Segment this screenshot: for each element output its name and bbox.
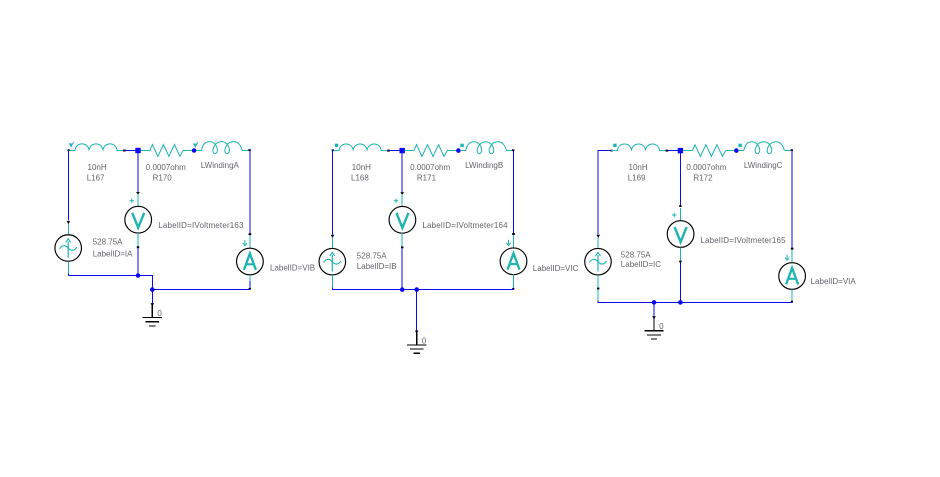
svg-text:528.75A: 528.75A — [357, 252, 387, 261]
inductor L168 — [332, 144, 390, 152]
wire left branch upper — [597, 150, 599, 234]
wire bottom rail B — [332, 289, 514, 291]
label voltmeter — [700, 236, 786, 245]
label R170 values — [146, 163, 186, 182]
wire source to bottom rail — [67, 261, 69, 275]
svg-text:LWindingA: LWindingA — [201, 161, 240, 170]
wire node to resistor — [683, 150, 692, 152]
wire ammeter to bottom rail — [512, 275, 514, 290]
svg-text:10nH: 10nH — [352, 163, 371, 172]
ammeter M1 — [237, 248, 264, 275]
wire winding to top-right corner — [784, 149, 793, 151]
voltmeter U1 — [125, 206, 152, 233]
voltmeter U2 — [389, 206, 416, 233]
wire voltmeter teal lead bottom — [679, 247, 681, 262]
label ammeter — [270, 264, 315, 273]
resistor R171 — [414, 145, 447, 157]
wire ammeter branch upper — [512, 150, 515, 235]
label L167 values — [87, 163, 107, 182]
svg-text:0: 0 — [422, 336, 427, 345]
wire ammeter teal lead top — [513, 235, 515, 248]
wire inductor to node C1 — [667, 150, 680, 152]
svg-text:L168: L168 — [351, 173, 369, 182]
label R171 values — [410, 163, 450, 182]
arrow marker ammeter — [506, 240, 510, 246]
label ammeter — [533, 264, 579, 273]
wire left branch teal lead — [67, 224, 69, 234]
wire voltmeter branch lower — [679, 262, 681, 302]
wire voltmeter teal lead top — [679, 208, 681, 221]
junction voltmeter-rail — [678, 300, 683, 305]
label LWindingC — [744, 161, 783, 170]
svg-text:L167: L167 — [87, 173, 105, 182]
svg-text:528.75A: 528.75A — [93, 237, 123, 246]
junction node B2 — [456, 148, 461, 153]
current source IA 528.75A — [55, 235, 82, 262]
wire voltmeter teal lead top — [137, 194, 139, 207]
arrow voltmeter top — [400, 192, 404, 195]
arrow voltmeter top — [136, 192, 140, 195]
junction ground-rail — [150, 287, 155, 292]
ground 0 node C — [644, 322, 664, 339]
wire ammeter to bottom rail — [791, 289, 793, 302]
junction ground-rail — [414, 287, 419, 292]
wire bottom rail C — [598, 301, 793, 303]
wire ammeter branch upper — [249, 150, 252, 235]
svg-text:10nH: 10nH — [88, 163, 107, 172]
svg-text:LabelID=IVoltmeter163: LabelID=IVoltmeter163 — [158, 221, 244, 230]
svg-text:0.0007ohm: 0.0007ohm — [146, 163, 186, 172]
ammeter M3 — [779, 263, 806, 290]
svg-text:R170: R170 — [153, 173, 173, 182]
inductor L169 — [611, 144, 668, 152]
svg-text:LabelID=IVoltmeter165: LabelID=IVoltmeter165 — [700, 236, 786, 245]
voltmeter U3 — [667, 221, 694, 248]
label R172 values — [686, 163, 726, 182]
wire node to resistor — [141, 150, 150, 152]
wire top-left lead C — [598, 150, 613, 152]
label L169 values — [628, 163, 648, 182]
svg-text:0: 0 — [157, 309, 162, 318]
label L168 values — [351, 163, 371, 182]
wire inductor to node B1 — [389, 150, 402, 152]
wire winding to top-right corner — [242, 149, 251, 151]
junction node A1 — [135, 148, 140, 153]
svg-text:0: 0 — [659, 322, 664, 331]
svg-text:LabelID=IVoltmeter164: LabelID=IVoltmeter164 — [422, 221, 508, 230]
label voltmeter — [422, 221, 508, 230]
junction node A2 — [192, 148, 197, 153]
current source IB 528.75A — [319, 248, 346, 275]
current source IC 528.75A — [585, 248, 612, 275]
svg-text:LabelID=IC: LabelID=IC — [621, 260, 661, 269]
label ammeter — [811, 277, 857, 286]
svg-text:0.0007ohm: 0.0007ohm — [410, 163, 450, 172]
wire voltmeter teal lead top — [401, 194, 403, 207]
svg-text:LabelID=VIC: LabelID=VIC — [533, 264, 579, 273]
svg-text:LabelID=IB: LabelID=IB — [357, 262, 397, 271]
arrow marker ammeter — [243, 240, 247, 246]
winding inductor LWindingA — [193, 142, 242, 154]
wire voltmeter branch upper — [401, 153, 403, 192]
svg-text:L169: L169 — [628, 173, 646, 182]
wire ammeter teal lead top — [791, 250, 793, 263]
arrow marker left branch — [331, 235, 335, 238]
svg-text:528.75A: 528.75A — [621, 250, 651, 259]
label current source — [357, 252, 397, 271]
wire voltmeter teal lead bottom — [137, 233, 139, 248]
wire node to resistor — [405, 150, 414, 152]
svg-text:LabelID=VIB: LabelID=VIB — [270, 264, 315, 273]
wire bottom rail A — [68, 276, 251, 290]
svg-text:R171: R171 — [417, 173, 437, 182]
wire left branch teal lead — [597, 238, 599, 248]
wire voltmeter branch lower — [137, 248, 139, 276]
junction voltmeter-rail — [136, 273, 141, 278]
wire left branch upper — [67, 150, 69, 221]
tick voltmeter top — [679, 205, 681, 207]
wire source to bottom rail — [332, 275, 334, 289]
label current source — [621, 250, 661, 269]
plus sign voltmeter — [394, 199, 398, 203]
arrow marker ammeter — [785, 255, 789, 261]
junction node C2 — [734, 148, 739, 153]
svg-text:LWindingB: LWindingB — [465, 161, 503, 170]
wire source to bottom rail — [597, 275, 599, 302]
label current source — [93, 237, 133, 258]
ground 0 node B — [407, 336, 427, 353]
label LWindingA — [201, 161, 240, 170]
wire ammeter to bottom rail — [249, 275, 251, 290]
arrow marker left branch — [596, 235, 600, 238]
ammeter M2 — [500, 248, 527, 275]
junction node C1 — [678, 148, 683, 153]
resistor R172 — [692, 145, 725, 157]
wire resistor to node A2 — [183, 150, 194, 152]
wire voltmeter branch upper — [679, 153, 681, 206]
label voltmeter — [158, 221, 244, 230]
inductor L167 — [68, 142, 126, 151]
wire winding to top-right corner — [506, 149, 514, 151]
winding inductor LWindingB — [460, 142, 506, 154]
wire voltmeter branch lower — [401, 248, 403, 290]
resistor R170 — [150, 145, 183, 157]
wire voltmeter teal lead bottom — [401, 233, 403, 248]
wire ground stem — [151, 290, 155, 318]
label LWindingB — [465, 161, 503, 170]
plus sign voltmeter — [130, 199, 134, 203]
wire voltmeter branch upper — [137, 153, 139, 192]
wire resistor to node B2 — [447, 150, 458, 152]
junction node B1 — [400, 148, 405, 153]
ground 0 node A — [143, 309, 163, 326]
svg-text:LWindingC: LWindingC — [744, 161, 783, 170]
wire ammeter teal lead top — [249, 235, 251, 248]
svg-text:0.0007ohm: 0.0007ohm — [686, 163, 726, 172]
junction voltmeter-rail — [400, 287, 405, 292]
junction ground-rail — [652, 300, 657, 305]
wire left branch upper — [332, 150, 334, 234]
winding inductor LWindingC — [738, 142, 784, 154]
wire ground stem — [652, 302, 656, 330]
svg-text:LabelID=IA: LabelID=IA — [93, 249, 133, 258]
wire ground stem — [415, 290, 419, 345]
svg-text:LabelID=VIA: LabelID=VIA — [811, 277, 857, 286]
wire left branch teal lead — [332, 238, 334, 248]
plus sign voltmeter — [672, 213, 676, 217]
svg-text:10nH: 10nH — [629, 163, 648, 172]
wire ammeter branch upper — [791, 150, 794, 250]
arrow marker left branch — [67, 221, 71, 224]
svg-text:R172: R172 — [693, 173, 713, 182]
wire resistor to node C2 — [726, 150, 737, 152]
wire inductor to node A1 — [125, 150, 138, 152]
